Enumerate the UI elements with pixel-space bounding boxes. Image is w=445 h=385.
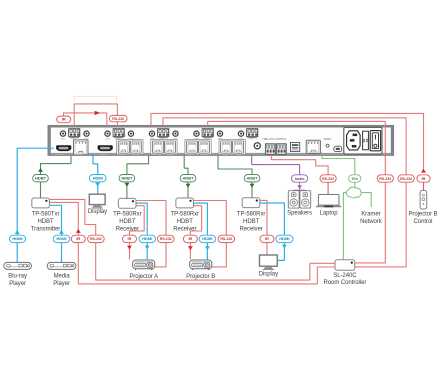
node IR projB — [183, 235, 197, 242]
svg-text:HDBT: HDBT — [243, 219, 259, 225]
svg-text:HDMI: HDMI — [279, 236, 289, 241]
svg-text:Projector B: Projector B — [408, 212, 437, 218]
Projector A device — [133, 260, 155, 270]
Projector B device — [190, 260, 212, 270]
HDBT OUT pair group 4 — [219, 140, 245, 155]
HDBT wire: panel to transmitter — [41, 156, 72, 198]
arrow down projector B IR — [188, 246, 193, 250]
mini USB port — [334, 146, 342, 151]
TP-580Rxr receiver A box — [118, 198, 136, 208]
svg-text:HDMI: HDMI — [12, 236, 22, 241]
Display 1 (HDMI out) monitor — [89, 194, 105, 208]
arrow down projector A IR — [127, 246, 132, 250]
svg-text:HDBT: HDBT — [119, 219, 135, 225]
svg-text:TP-580Rxr: TP-580Rxr — [171, 212, 200, 218]
arrow on IR loopback — [95, 111, 101, 115]
svg-text:IR: IR — [188, 236, 192, 241]
IR jack 4 — [128, 131, 133, 136]
IR wire: receiver A to projector A — [130, 206, 145, 260]
IR jack 3 — [105, 131, 110, 136]
TP-580Rxr receiver B box — [176, 198, 194, 208]
power module: IEC inlet, fuse, switch — [344, 127, 382, 154]
IR jack 1 — [60, 131, 65, 136]
Kramer Network cloud — [346, 187, 361, 198]
faint upper loop wire — [74, 96, 116, 101]
RS-232 wire: receiver B to projector B — [194, 201, 227, 267]
svg-text:Media: Media — [54, 274, 71, 280]
faint port captions — [57, 139, 267, 156]
node Audio — [292, 175, 308, 182]
arrow down projector B HDMI — [205, 246, 210, 250]
svg-text:HDBT: HDBT — [37, 219, 53, 225]
svg-text:RESET: RESET — [324, 138, 333, 141]
IR wire: right oval to remote — [423, 182, 425, 190]
svg-text:HDBT: HDBT — [121, 176, 133, 181]
IR wire: receiver B to projector B — [190, 206, 201, 260]
node IR right — [417, 175, 430, 182]
RS-232 loopback wire: block1 to block2 — [74, 104, 117, 126]
Blu-ray player device — [4, 262, 32, 269]
matrix switcher rear panel body — [48, 125, 394, 155]
svg-text:IR: IR — [422, 176, 426, 181]
svg-text:IR: IR — [62, 117, 66, 122]
ethernet wire: Eth oval to cloud — [354, 182, 356, 188]
arrow down display 1 HDMI — [95, 183, 100, 187]
svg-text:HDBT: HDBT — [182, 176, 194, 181]
svg-text:Display: Display — [88, 209, 107, 215]
Speakers (right) — [300, 191, 311, 208]
svg-text:TP-580Txr: TP-580Txr — [32, 212, 60, 218]
IR jack 2 — [84, 131, 89, 136]
RS-232 control terminal blocks — [264, 137, 287, 154]
arrow down projector A HDMI — [145, 246, 150, 250]
arrow into long IR wire — [421, 169, 426, 173]
arrow down display HDMI — [282, 245, 287, 249]
svg-text:Laptop: Laptop — [320, 210, 339, 216]
RS-232 wire: control port to laptop oval — [271, 155, 328, 175]
svg-text:IR: IR — [128, 236, 132, 241]
HDMI wire: media player to transmitter — [50, 205, 62, 262]
svg-text:Player: Player — [9, 281, 26, 287]
node RS-232 right A — [377, 175, 393, 182]
node HDMI projA — [139, 235, 156, 242]
svg-text:SL-240C: SL-240C — [333, 273, 357, 279]
ethernet wire: cloud right stub — [360, 193, 372, 208]
IR wire: receiver C to display — [259, 200, 267, 254]
RS-232 wire: Tx to RS-232 oval to room controller — [50, 199, 335, 280]
svg-text:IR: IR — [76, 236, 80, 241]
long RS-232 wire: panel to right RS-232 A — [208, 121, 386, 174]
RS-232 terminal block 3 — [158, 129, 169, 137]
node RS-232 Tx — [88, 235, 105, 242]
node RS-232 laptop — [320, 175, 336, 182]
node RS-232 projA — [158, 235, 175, 242]
Projector B Control remote — [420, 190, 427, 209]
reset button — [324, 138, 333, 147]
svg-text:Audio: Audio — [295, 177, 305, 181]
svg-text:RS-232: RS-232 — [160, 237, 172, 241]
arrow down on receiver B HDBT — [186, 184, 191, 188]
node HDMI projB — [199, 235, 216, 242]
TP-580Txr HDBT transmitter box — [32, 198, 50, 208]
HDBT OUT pair group 2 — [151, 140, 177, 155]
IR jack 5 — [149, 131, 154, 136]
IR loopback wire: IR jack1 to jack3 (arrowed) — [64, 113, 107, 126]
HDBT wire: panel to receiver B — [184, 156, 188, 198]
RS-232 terminal block 1 — [69, 129, 80, 137]
USB-A port — [291, 143, 300, 152]
ethernet wire: cloud to SL-240C — [343, 193, 348, 260]
HDMI output port 2 — [98, 145, 113, 151]
svg-text:Blu-ray: Blu-ray — [8, 274, 27, 280]
audio wire: panel jack to audio oval — [252, 155, 300, 175]
HDBT OUT pair group 3 — [185, 140, 211, 155]
IR jack 7 — [194, 131, 199, 136]
node RS-232 right B — [398, 175, 414, 182]
svg-text:RS-232: RS-232 — [112, 117, 124, 121]
svg-text:Player: Player — [53, 281, 70, 287]
svg-text:RS-232: RS-232 — [400, 177, 412, 181]
Display (receiver C) monitor — [260, 255, 278, 270]
svg-text:TP-580Rxr: TP-580Rxr — [237, 212, 266, 218]
Ethernet RJ45 port — [306, 140, 320, 153]
RS-232 wire: right oval B to room controller — [355, 182, 406, 267]
Media player device — [47, 262, 76, 269]
node HDMI blu-ray — [9, 235, 25, 242]
svg-text:Projector B: Projector B — [186, 274, 215, 280]
node IR projA — [123, 235, 137, 242]
HDBT input RJ45 port — [74, 140, 89, 155]
svg-text:TP-580Rxr: TP-580Rxr — [113, 212, 142, 218]
node IR Tx — [71, 235, 85, 242]
svg-text:Control: Control — [414, 219, 433, 225]
IR jack 8 — [217, 131, 222, 136]
HDBT wire: panel to receiver A — [127, 156, 149, 199]
svg-text:Kramer: Kramer — [361, 211, 380, 217]
audio wire to speakers + arrow — [294, 182, 306, 191]
svg-text:RS-232 CONTROL: RS-232 CONTROL — [264, 137, 287, 141]
SL-240C room controller box — [335, 260, 355, 270]
ethernet wire: panel to Eth oval — [322, 152, 355, 175]
svg-text:Eth: Eth — [352, 176, 359, 181]
HDBT OUT pair group 1 — [117, 140, 143, 155]
RS-232 terminal block 2 — [113, 129, 124, 137]
svg-text:HDMI: HDMI — [142, 236, 152, 241]
svg-text:HDBT: HDBT — [246, 176, 258, 181]
node RS-232 (top loop) — [109, 115, 127, 121]
svg-text:Transmitter: Transmitter — [31, 226, 61, 232]
svg-text:RS-232: RS-232 — [220, 237, 232, 241]
node HDBT RxC — [244, 175, 260, 182]
svg-text:HDMI: HDMI — [56, 236, 66, 241]
Speakers (left) — [288, 191, 299, 208]
long RS-232 wire: panel to right RS-232 B — [163, 118, 406, 175]
node HDBT RxB — [180, 175, 196, 182]
RS-232 wire: right oval A to room controller — [355, 182, 385, 263]
IR jack 9 — [238, 131, 243, 136]
Laptop device — [316, 195, 341, 208]
HDBT wire: panel to receiver C — [218, 156, 252, 198]
TP-580Rxr receiver C box — [242, 198, 260, 208]
HDMI wire: receiver C to display — [259, 203, 285, 260]
arrow down on receiver C HDBT — [250, 184, 255, 188]
node HDMI displayC — [276, 235, 293, 242]
RS-232 terminal block 4 — [202, 129, 213, 137]
svg-text:RS-232: RS-232 — [322, 177, 334, 181]
arrow up Blu-ray HDMI — [15, 230, 20, 234]
node Eth — [349, 175, 361, 182]
svg-text:Receiver: Receiver — [173, 226, 196, 232]
svg-text:Receiver: Receiver — [116, 226, 139, 232]
svg-text:Room Controller: Room Controller — [324, 280, 367, 286]
node HDBT RxA — [119, 175, 135, 182]
svg-text:Projector A: Projector A — [129, 274, 158, 280]
IR wire: Tx to IR oval to room controller — [50, 202, 335, 284]
node IR (top loop) — [57, 116, 71, 123]
HDMI wire: Blu-ray to panel input 1 — [17, 148, 54, 262]
node HDMI display1 — [89, 175, 106, 182]
arrow up media HDMI — [59, 230, 64, 234]
node HDMI media — [53, 235, 70, 242]
HDMI wire: receiver A to projector A — [136, 203, 147, 259]
audio out jack — [254, 143, 260, 149]
svg-text:IR: IR — [265, 236, 269, 241]
svg-text:RS-232: RS-232 — [90, 237, 102, 241]
HDMI wire: panel out to display 1 — [93, 156, 98, 194]
svg-text:Network: Network — [360, 219, 383, 225]
long IR wire: panel to Projector B control — [151, 113, 424, 169]
HDMI input port 1 — [56, 145, 71, 151]
svg-text:RS-232: RS-232 — [379, 177, 391, 181]
svg-text:Display: Display — [259, 272, 278, 278]
RS-232 terminal block 5 — [247, 129, 258, 137]
svg-text:Speakers: Speakers — [287, 210, 312, 216]
svg-text:HDBT: HDBT — [177, 219, 193, 225]
RS-232 wire: laptop oval to laptop — [327, 182, 329, 195]
svg-text:HDBT: HDBT — [35, 176, 47, 181]
IR jack 6 — [173, 131, 178, 136]
arrow up Tx IR — [76, 229, 81, 233]
RS-232 wire: receiver A to projector A — [136, 201, 166, 267]
arrow down on receiver A HDBT — [125, 183, 130, 187]
node HDBT Tx — [33, 175, 49, 182]
svg-text:HDMI: HDMI — [93, 176, 103, 181]
svg-text:Receiver: Receiver — [239, 226, 262, 232]
HDMI wire: receiver B to projector B — [194, 203, 208, 259]
node RS-232 projB — [218, 235, 235, 242]
arrow up on Tx HDBT — [38, 168, 43, 172]
svg-text:HDMI: HDMI — [202, 236, 212, 241]
node IR displayC — [260, 235, 274, 242]
